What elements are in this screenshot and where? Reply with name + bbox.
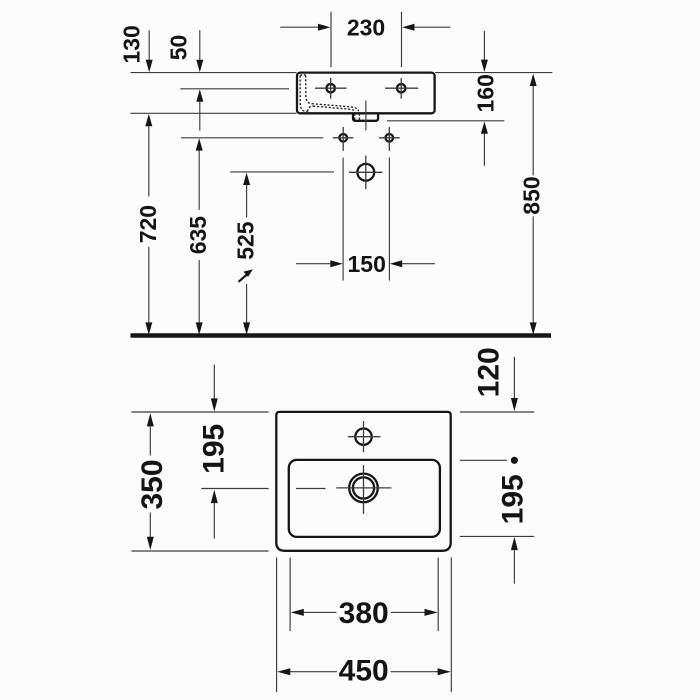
svg-text:450: 450: [339, 655, 389, 688]
wall fixing hole right (side view): [385, 78, 418, 99]
extension line: lower holes level: [181, 137, 323, 139]
svg-text:720: 720: [135, 205, 161, 243]
floor line: [131, 333, 552, 338]
centre line through drain boss: [365, 101, 367, 131]
svg-text:230: 230: [347, 15, 385, 41]
dimension 380: [290, 558, 438, 632]
dimension 350: [136, 413, 169, 550]
extension line: faucet hole level: [180, 88, 289, 90]
extension line: rim top right: [460, 457, 518, 464]
dimension 130: [118, 25, 152, 72]
wall fixing hole left (side view): [315, 78, 347, 99]
svg-text:195: 195: [198, 424, 231, 474]
faucet hole (plan view): [348, 421, 380, 452]
svg-text:130: 130: [118, 25, 144, 63]
extension line: drain centre left: [201, 488, 325, 490]
dimension 230: [280, 12, 450, 67]
dimension 120: [472, 347, 518, 411]
basin inner profile (hidden dashed lines, side view): [300, 75, 359, 112]
svg-text:380: 380: [339, 597, 389, 630]
svg-text:50: 50: [165, 35, 191, 61]
svg-text:195: 195: [496, 474, 529, 524]
dimension 150: [296, 158, 435, 281]
svg-text:120: 120: [472, 347, 505, 397]
dimension 450: [277, 558, 452, 693]
extension line: boss bottom level: [387, 120, 504, 122]
extension line: basin bottom left: [131, 112, 297, 114]
extension line: plan top right: [460, 411, 534, 413]
dimension 635: [185, 138, 211, 335]
drain outlet (side view): [349, 156, 383, 190]
dimension 195 left: [198, 365, 231, 539]
extension line: rim level left: [131, 72, 297, 74]
dimension 195 right: [496, 474, 529, 583]
dimension 525: [233, 173, 259, 335]
extension line: drain level: [230, 171, 334, 173]
dimension 720: [135, 114, 161, 335]
basin outline (side view): [297, 73, 435, 114]
svg-text:350: 350: [136, 459, 169, 509]
dimension 850: [519, 74, 545, 335]
lower fixing hole right (side view): [379, 127, 400, 151]
drain (plan view): [336, 465, 391, 514]
svg-text:160: 160: [472, 74, 498, 112]
svg-text:635: 635: [185, 216, 211, 255]
washbasin outline (plan view): [276, 412, 450, 551]
dimension 160: [472, 31, 498, 166]
lower fixing hole left (side view): [333, 127, 354, 151]
dimension 50: [165, 30, 203, 130]
svg-text:150: 150: [348, 251, 386, 277]
svg-text:525: 525: [233, 221, 259, 260]
extension line: plan top left: [131, 411, 268, 413]
extension line: rim bottom right: [460, 535, 534, 537]
drain boss hidden lines: [355, 114, 360, 120]
drain boss (side view): [353, 113, 378, 121]
extension line: rim level right: [435, 72, 552, 74]
extension line: plan bottom left: [131, 550, 268, 552]
basin rim (plan view inner): [289, 460, 440, 537]
adjustability arrow at 525: [239, 269, 253, 281]
svg-text:850: 850: [519, 176, 545, 214]
